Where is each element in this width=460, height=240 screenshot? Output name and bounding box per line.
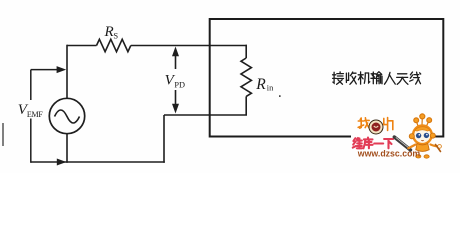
mascot crown [414,114,432,126]
stray scan mark left edge [2,123,4,146]
VPD arrow lower line [175,90,177,107]
label RS [104,24,119,40]
mascot mouth [421,139,423,142]
char 库 [363,138,372,149]
svg-text:R: R [104,24,114,40]
char 线 [410,72,421,84]
label Chinese 接收机输入天线 [333,72,421,85]
wire top horizontal left segment [67,45,97,47]
label Rin [255,76,280,97]
svg-text:www.dzsc.com: www.dzsc.com [357,149,421,159]
svg-text:R: R [255,76,266,93]
VPD top arrowhead [172,47,179,57]
char 一 [374,142,383,144]
VEMF bracket vertical line upper [30,70,32,100]
mascot right arm [431,145,439,147]
watermark logo 我(badge)片 [358,118,393,134]
label VEMF [18,102,44,119]
source sine wave [55,110,80,123]
mascot ears [409,134,414,139]
resistor Rin bottom lead [245,96,247,115]
watermark text 维库一下 red [353,138,393,149]
mascot body [416,144,429,152]
VPD arrow upper line [175,54,177,70]
wire bottom horizontal [31,161,165,163]
VEMF top arrowhead [57,66,67,73]
svg-text:EMF: EMF [27,110,44,119]
mascot hair fringe [415,127,430,131]
wire lower middle horizontal [164,114,247,116]
svg-text:PD: PD [174,80,185,89]
svg-text:in: in [267,84,274,93]
char 输 [371,72,382,84]
wire left vertical lower [66,134,68,163]
VPD bottom arrowhead [172,104,179,114]
box receiver antenna [210,19,444,137]
char 收 [346,72,356,84]
resistor Rin zigzag [241,58,251,96]
watermark white halo over box line [351,134,430,139]
wire left vertical upper [66,45,68,99]
char 接 [333,72,344,84]
resistor RS zigzag [97,39,131,51]
char 下 [384,139,393,148]
mascot left arm to pen [408,145,415,149]
wire top horizontal right segment [131,45,247,47]
source VEMF circle [49,98,84,133]
svg-text:S: S [113,30,118,40]
mascot head [413,126,432,145]
char 维 [353,138,362,148]
label VPD [165,72,185,89]
char 入 [385,72,396,84]
wire step vertical [163,115,165,163]
VEMF bracket top arrow wire [31,69,58,71]
char 天 [397,74,408,85]
watermark pen [394,137,410,150]
badge circle [369,120,383,134]
char 机 [358,72,370,84]
mascot feet [416,155,421,158]
VEMF bracket vertical line lower [30,119,32,163]
resistor Rin top lead [245,45,247,58]
VEMF bottom arrowhead [57,159,67,166]
mascot right-hand stick [436,145,441,152]
mascot eyes [416,133,421,138]
